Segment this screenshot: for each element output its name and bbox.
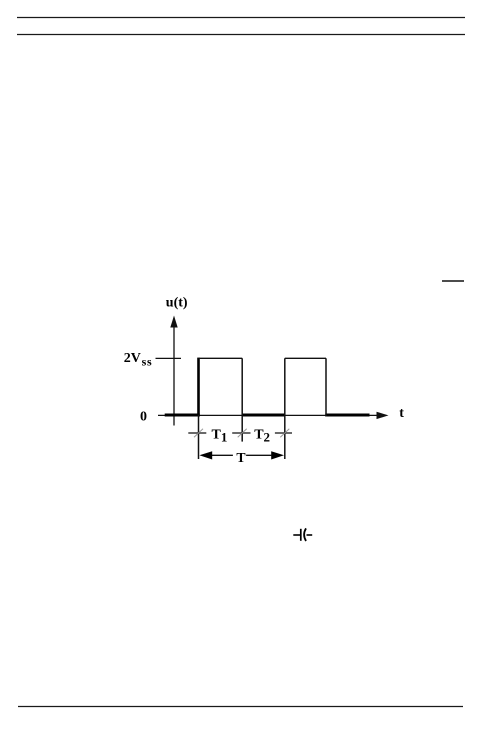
zero-level thick segment 1 (165, 413, 200, 416)
capacitor left lead (293, 534, 300, 536)
svg-text:u(t): u(t) (166, 296, 188, 311)
dimension arrow left (199, 451, 212, 459)
pulse 1 top (199, 357, 243, 359)
tick segment right (275, 432, 292, 434)
tick segment left (188, 432, 206, 434)
zero-level thick segment 3 (325, 413, 369, 416)
pulse 2 right edge (325, 358, 327, 416)
svg-text:T1: T1 (212, 427, 228, 444)
capacitor symbol (293, 528, 312, 541)
extension line below pulse1 left (198, 415, 200, 459)
slash tick 3 (280, 429, 289, 437)
dimension line right part (246, 454, 271, 456)
2Vss tick (156, 357, 182, 359)
slash tick 2 (238, 429, 247, 437)
y-axis arrowhead (170, 316, 177, 328)
capacitor right lead (307, 534, 313, 536)
capacitor right curved plate (304, 528, 306, 541)
svg-text:T: T (236, 450, 245, 465)
svg-text:0: 0 (140, 409, 147, 424)
pulse 1 left edge (197, 358, 200, 417)
svg-text:t: t (399, 406, 404, 421)
dimension arrow right (271, 451, 284, 459)
capacitor left plate (300, 529, 302, 541)
tick segment middle (232, 432, 250, 434)
t-axis arrowhead (377, 412, 389, 419)
slash tick 1 (194, 429, 203, 437)
dimension line left part (212, 454, 233, 456)
header rule bottom (17, 34, 465, 36)
pulse 1 right edge (241, 358, 243, 441)
pulse 2 top (285, 357, 326, 359)
svg-text:T2: T2 (254, 427, 270, 444)
t-axis (158, 414, 378, 416)
header rule top (17, 17, 465, 19)
fragment line right margin (442, 280, 464, 282)
y-axis (173, 324, 175, 426)
svg-text:2Vss: 2Vss (124, 351, 153, 369)
pulse 2 left edge (284, 358, 286, 459)
zero-level thick segment 2 (242, 413, 285, 416)
footer rule (18, 706, 463, 708)
